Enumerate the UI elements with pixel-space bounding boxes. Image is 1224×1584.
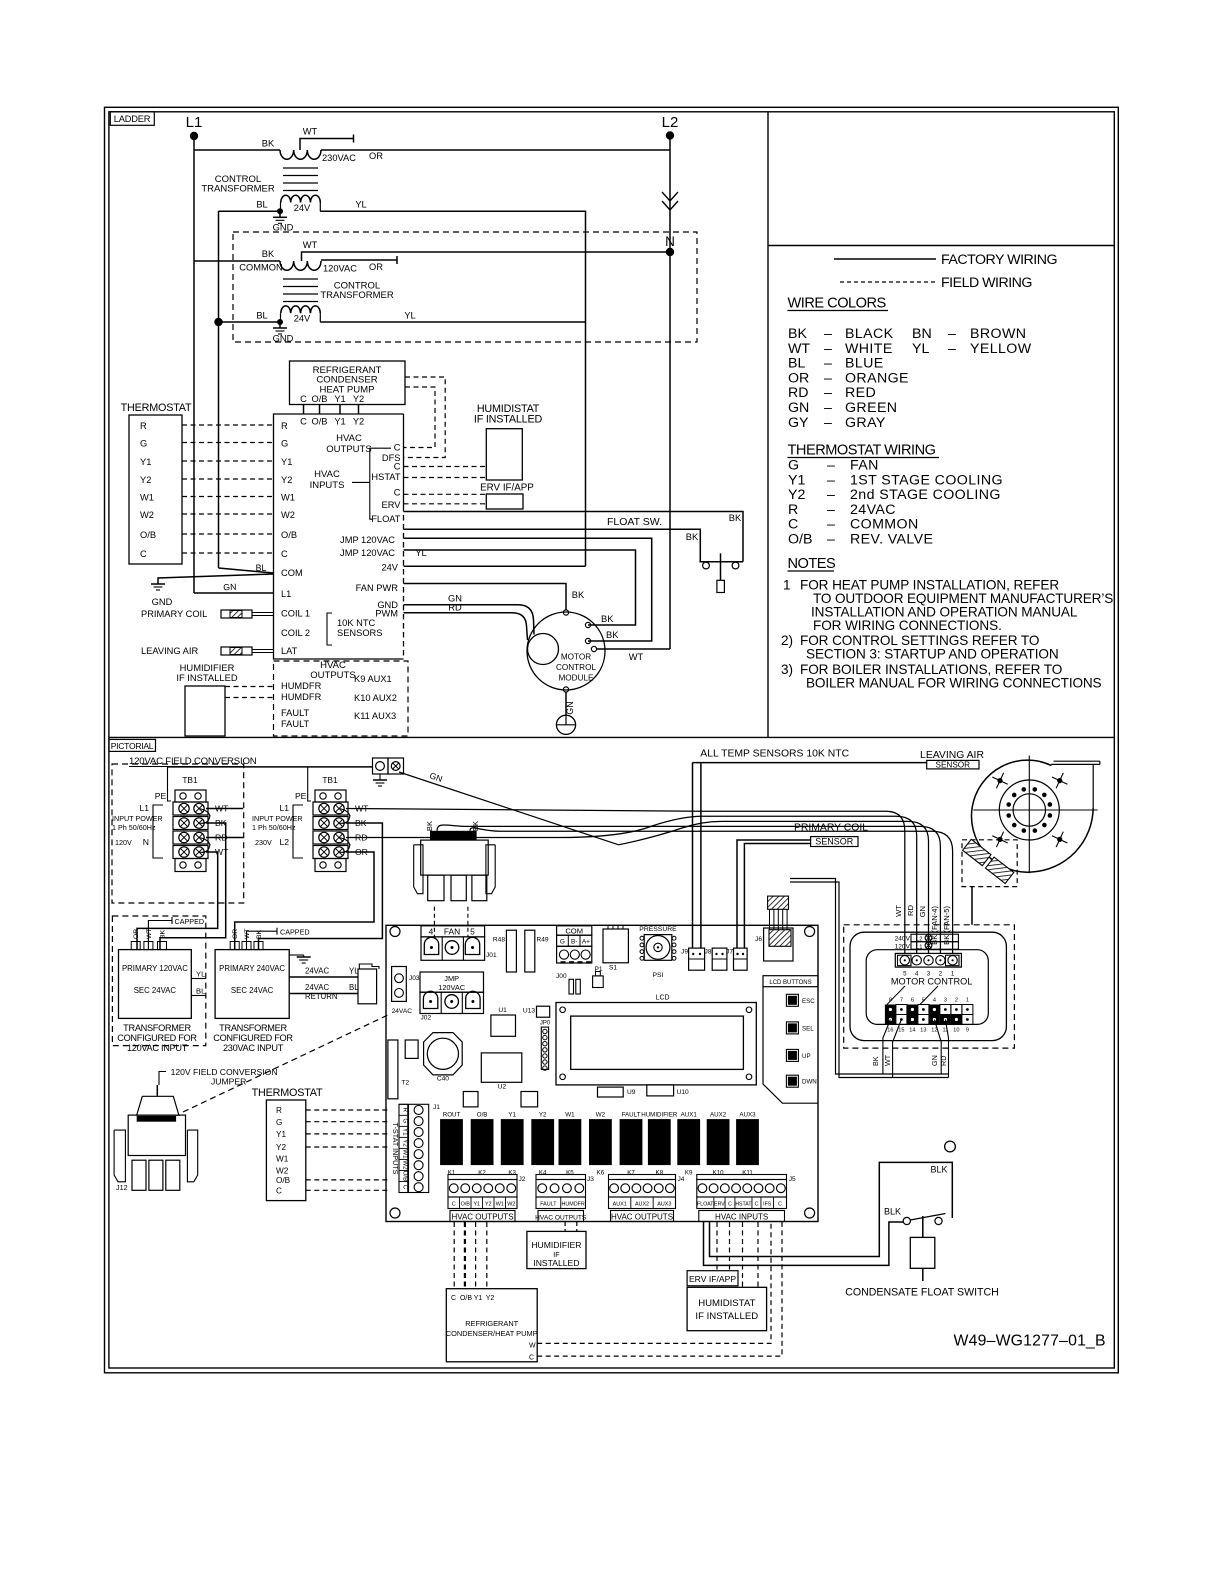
svg-text:U1: U1 <box>498 1007 507 1014</box>
ground symbol at T1 secondary <box>279 211 281 217</box>
svg-text:13: 13 <box>920 1028 926 1034</box>
svg-text:O/B: O/B <box>311 394 327 404</box>
terminal block TB1 screw rows <box>173 802 208 815</box>
svg-text:ERV IF/APP: ERV IF/APP <box>689 1274 736 1284</box>
wire 24VAC YL to plug <box>289 976 358 978</box>
svg-text:G: G <box>402 1118 409 1123</box>
svg-text:COMMON: COMMON <box>239 263 282 273</box>
svg-text:HVAC INPUTS: HVAC INPUTS <box>715 1212 768 1221</box>
caption box J2 <box>450 1211 515 1222</box>
svg-text:–: – <box>827 487 835 503</box>
svg-text:C: C <box>728 1202 732 1208</box>
svg-text:HUMIDIFIER: HUMIDIFIER <box>641 1112 678 1119</box>
svg-text:U13: U13 <box>523 1007 535 1014</box>
svg-text:–: – <box>824 370 832 386</box>
svg-text:ORANGE: ORANGE <box>845 370 909 386</box>
svg-text:WT: WT <box>883 1054 892 1066</box>
transformer T2 core lines <box>283 278 318 280</box>
svg-text:J9: J9 <box>681 949 688 956</box>
svg-text:W2: W2 <box>276 1167 289 1176</box>
dashed wires J3 to humidifier box <box>564 1222 566 1231</box>
dashed diagonal 120V conversion path <box>183 1014 390 1112</box>
svg-text:2nd STAGE COOLING: 2nd STAGE COOLING <box>850 487 1001 503</box>
svg-text:–: – <box>824 326 832 342</box>
svg-text:24VAC: 24VAC <box>305 983 329 992</box>
svg-text:WT: WT <box>303 127 318 137</box>
svg-text:W: W <box>529 1343 536 1350</box>
wire JMP 120VAC 2 to motor module BK <box>404 538 652 641</box>
svg-text:L1: L1 <box>186 114 203 131</box>
transformer T1 24V secondary coil <box>280 203 282 212</box>
terminal block TB1 top cap <box>175 790 206 802</box>
svg-text:–: – <box>948 341 956 357</box>
svg-text:K5: K5 <box>566 1170 574 1177</box>
ground lug terminal at top <box>373 758 389 774</box>
svg-text:Y2: Y2 <box>353 417 364 427</box>
svg-text:YL: YL <box>912 341 929 357</box>
svg-text:–: – <box>824 341 832 357</box>
HVAC control box (ladder) <box>274 414 404 659</box>
svg-text:14: 14 <box>909 1028 915 1034</box>
svg-text:HUMIDISTAT: HUMIDISTAT <box>698 1298 755 1309</box>
svg-text:24V: 24V <box>381 563 398 573</box>
svg-text:1: 1 <box>783 578 791 593</box>
svg-text:120VAC: 120VAC <box>323 264 357 274</box>
svg-text:–: – <box>824 356 832 372</box>
svg-text:INSTALLED: INSTALLED <box>533 1258 579 1268</box>
IC U9 <box>598 1087 624 1097</box>
svg-text:R49: R49 <box>537 937 549 944</box>
svg-text:PE: PE <box>295 791 307 801</box>
svg-text:FLOAT: FLOAT <box>371 514 401 524</box>
svg-text:1 Ph 50/60Hz: 1 Ph 50/60Hz <box>112 823 156 832</box>
svg-text:C: C <box>394 488 401 498</box>
svg-text:PRESSURE: PRESSURE <box>639 926 677 933</box>
svg-text:C40: C40 <box>437 1076 449 1083</box>
svg-text:THERMOSTAT: THERMOSTAT <box>121 402 192 414</box>
svg-text:TRANSFORMER: TRANSFORMER <box>219 1023 287 1033</box>
legend field wiring sample line <box>840 281 936 283</box>
LADDER section label <box>110 112 154 126</box>
transformer1 capped lead <box>148 921 172 950</box>
svg-text:ERV: ERV <box>714 1202 725 1208</box>
svg-text:C: C <box>300 417 307 427</box>
svg-text:WT: WT <box>244 928 251 939</box>
resistor R48 <box>506 930 516 972</box>
blower middle circle <box>999 780 1059 840</box>
dashed path refrigerant to control box DFS pin <box>404 377 446 458</box>
caption box J3 <box>538 1211 584 1222</box>
wire module ground <box>565 692 567 715</box>
svg-text:–: – <box>827 502 835 518</box>
svg-text:J00: J00 <box>556 973 567 980</box>
svg-text:THERMOSTAT: THERMOSTAT <box>252 1087 323 1099</box>
dashed C wire to ERV box <box>404 493 487 495</box>
motor control 240V/120V input block <box>911 934 958 942</box>
svg-text:FAN: FAN <box>850 458 879 474</box>
svg-text:DWN: DWN <box>802 1079 817 1086</box>
svg-text:–: – <box>827 458 835 474</box>
dashed box 120VAC alternative in ladder <box>233 232 697 342</box>
svg-text:4: 4 <box>429 927 434 937</box>
ERV IF/APP box (pictorial) <box>687 1271 738 1286</box>
capacitor C40 <box>424 1033 463 1075</box>
dashed path refrigerant to control box C pin <box>404 387 436 448</box>
wires BK WT GN RD from 16-pin to bus <box>883 1020 891 1075</box>
svg-text:L2: L2 <box>662 114 679 131</box>
svg-text:FACTORY WIRING: FACTORY WIRING <box>941 252 1057 268</box>
wire BL rail vertical to COM pin <box>218 211 220 568</box>
svg-text:REV. VALVE: REV. VALVE <box>850 532 933 548</box>
svg-text:THERMOSTAT WIRING: THERMOSTAT WIRING <box>788 443 936 459</box>
svg-text:PE: PE <box>155 791 167 801</box>
svg-text:SENSOR: SENSOR <box>815 837 854 847</box>
svg-text:O/B: O/B <box>311 417 327 427</box>
svg-text:3): 3) <box>781 662 793 677</box>
svg-text:O/B: O/B <box>477 1112 488 1119</box>
svg-text:L1: L1 <box>279 803 289 813</box>
wire BK COMMON from L1 to transformer T2 primary <box>194 260 280 262</box>
svg-text:IF INSTALLED: IF INSTALLED <box>176 672 238 683</box>
svg-text:BK: BK <box>729 513 742 523</box>
svg-text:G: G <box>281 439 288 449</box>
svg-text:JMP 120VAC: JMP 120VAC <box>340 535 395 545</box>
dashed wires J5 to ERV box <box>716 1222 718 1271</box>
svg-text:YELLOW: YELLOW <box>970 341 1032 357</box>
svg-text:BROWN: BROWN <box>970 326 1026 342</box>
svg-text:CONDENSER/HEAT PUMP: CONDENSER/HEAT PUMP <box>446 1329 538 1338</box>
two small caps above relays <box>463 1092 478 1107</box>
svg-text:NOTES: NOTES <box>788 556 837 572</box>
svg-text:HSTAT: HSTAT <box>735 1202 752 1208</box>
wire TB1-120V BK row2 to transformer1 BK pin <box>160 823 226 950</box>
svg-text:O/B: O/B <box>276 1176 291 1185</box>
svg-text:T2: T2 <box>402 1080 410 1087</box>
wire FAN PWR to motor module <box>404 584 567 611</box>
resistor R49 <box>525 930 535 972</box>
svg-text:120V FIELD CONVERSION: 120V FIELD CONVERSION <box>171 1067 278 1077</box>
svg-text:W2: W2 <box>596 1112 606 1119</box>
svg-text:Y2: Y2 <box>539 1112 547 1119</box>
24VAC plug connector <box>358 969 377 1004</box>
capacitors near J00 <box>569 979 574 994</box>
svg-text:W1: W1 <box>276 1155 289 1164</box>
svg-text:Y1: Y1 <box>473 1202 480 1208</box>
svg-text:O/B: O/B <box>281 530 297 540</box>
svg-text:G: G <box>276 1118 282 1127</box>
wire BK from L1 to transformer T1 primary <box>194 149 280 151</box>
svg-text:120V: 120V <box>115 838 132 847</box>
svg-text:GND: GND <box>152 597 173 607</box>
svg-text:J03: J03 <box>409 975 420 982</box>
svg-text:CONDENSATE FLOAT SWITCH: CONDENSATE FLOAT SWITCH <box>845 1287 999 1299</box>
svg-text:Y1: Y1 <box>334 417 345 427</box>
svg-text:C: C <box>452 1202 456 1208</box>
fan plug connector (pictorial) <box>430 831 477 840</box>
svg-text:U2: U2 <box>498 1084 507 1091</box>
svg-text:SEL: SEL <box>802 1025 814 1032</box>
svg-text:GND: GND <box>273 334 294 344</box>
svg-text:J12: J12 <box>116 1183 128 1192</box>
primary coil SENSOR box <box>811 837 858 847</box>
svg-text:GN: GN <box>788 400 809 416</box>
dashed HSTAT wire to humidistat <box>404 477 487 479</box>
leaving air probe dashed box <box>962 840 1017 887</box>
LCD BUTTONS panel <box>763 987 818 1103</box>
svg-text:GN: GN <box>930 1055 939 1066</box>
thermostat box (ladder) <box>129 415 182 564</box>
svg-text:Y2: Y2 <box>353 394 364 404</box>
wire OR from T1 primary to L2 rail <box>321 149 670 151</box>
svg-text:CONFIGURED FOR: CONFIGURED FOR <box>213 1033 293 1043</box>
ground symbol right of transformer2 <box>289 954 304 956</box>
wire JMP 120VAC 1 to float switch <box>404 529 701 561</box>
svg-text:C: C <box>755 1202 759 1208</box>
svg-text:HUMDFR: HUMDFR <box>281 681 322 691</box>
motor control 5-pin connector <box>895 953 961 967</box>
legend factory wiring sample line <box>834 258 936 260</box>
svg-text:C: C <box>394 443 401 453</box>
svg-text:Y2: Y2 <box>486 1295 495 1302</box>
svg-text:–: – <box>824 415 832 431</box>
humidifier box (ladder) <box>185 686 225 736</box>
svg-text:W2: W2 <box>140 510 154 520</box>
IC U2 <box>481 1053 522 1082</box>
svg-text:OR: OR <box>369 262 383 272</box>
svg-text:230VAC INPUT: 230VAC INPUT <box>223 1043 284 1053</box>
node L1 junction dot <box>190 132 198 140</box>
svg-text:JMP: JMP <box>444 974 459 983</box>
svg-text:15: 15 <box>898 1028 904 1034</box>
wires J7 to primary coil sensor <box>737 840 811 948</box>
svg-text:K7: K7 <box>627 1170 635 1177</box>
svg-text:Y1: Y1 <box>508 1112 516 1119</box>
motor control 16-pin connector <box>885 1005 896 1015</box>
connector J02 JMP 120VAC <box>420 972 484 992</box>
svg-text:–: – <box>827 532 835 548</box>
svg-text:BK: BK <box>601 614 614 624</box>
svg-text:LCD BUTTONS: LCD BUTTONS <box>769 980 811 986</box>
wire YL from T2 secondary joining YL rail <box>320 321 585 323</box>
TB1 input bracket <box>153 805 163 858</box>
svg-text:WHITE: WHITE <box>845 341 893 357</box>
switch S1 <box>608 925 613 929</box>
svg-text:REFRIGERANT: REFRIGERANT <box>465 1319 518 1328</box>
svg-text:K8: K8 <box>656 1170 664 1177</box>
svg-text:W1: W1 <box>565 1112 575 1119</box>
svg-text:J7: J7 <box>726 949 733 956</box>
svg-text:240V: 240V <box>895 936 911 943</box>
svg-text:UP: UP <box>802 1053 811 1060</box>
wire WT tap of T1 with capped end <box>300 139 354 151</box>
svg-text:R: R <box>276 1106 282 1115</box>
svg-text:C: C <box>300 394 307 404</box>
svg-text:PWM: PWM <box>375 609 398 619</box>
svg-text:C: C <box>788 517 798 533</box>
svg-text:BK: BK <box>425 821 434 831</box>
wire bundle five conductors <box>346 809 905 954</box>
svg-text:CONFIGURED FOR: CONFIGURED FOR <box>117 1033 197 1043</box>
caption box J5 <box>699 1211 785 1222</box>
motor control dashed box <box>844 925 1015 1048</box>
terminal strip J4 <box>609 1175 676 1180</box>
motor control outer rounded body <box>850 932 1006 1040</box>
svg-text:YL: YL <box>404 311 415 321</box>
transformer T2 120VAC primary coil <box>280 261 321 270</box>
transformer T1 230VAC primary coil <box>280 150 321 159</box>
svg-text:2): 2) <box>781 633 793 648</box>
svg-text:O/B: O/B <box>402 1171 409 1182</box>
svg-text:FAN: FAN <box>444 927 460 937</box>
svg-text:J8: J8 <box>705 949 712 956</box>
svg-text:ERV IF/APP: ERV IF/APP <box>480 483 534 494</box>
svg-text:W2: W2 <box>507 1202 515 1208</box>
svg-text:AUX2: AUX2 <box>710 1112 727 1119</box>
svg-text:LAT: LAT <box>281 646 298 656</box>
wire L1 to control box L1 pin <box>194 592 274 594</box>
svg-text:FLOAT: FLOAT <box>697 1202 714 1208</box>
motor control leader lines <box>887 986 905 1005</box>
svg-text:G: G <box>788 458 799 474</box>
svg-text:O/B: O/B <box>788 532 812 548</box>
terminal block TB1 screw rows <box>313 802 348 815</box>
PCB mounting holes <box>390 927 400 937</box>
svg-text:–: – <box>948 326 956 342</box>
svg-text:Y2: Y2 <box>402 1139 409 1147</box>
transformer T2 24V secondary coil <box>280 313 282 322</box>
svg-text:BK: BK <box>606 630 619 640</box>
svg-text:PRIMARY 120VAC: PRIMARY 120VAC <box>122 964 188 973</box>
svg-text:ROUT: ROUT <box>443 1112 461 1119</box>
svg-text:C: C <box>778 1202 782 1208</box>
condensate float ball <box>945 1141 956 1152</box>
svg-text:Y2: Y2 <box>276 1143 286 1152</box>
blower diagonal tick marks <box>992 777 1007 784</box>
svg-text:LCD: LCD <box>656 995 670 1002</box>
svg-text:BK: BK <box>160 929 167 939</box>
svg-text:BL: BL <box>256 311 267 321</box>
svg-text:PRIMARY COIL: PRIMARY COIL <box>141 609 207 619</box>
svg-text:R48: R48 <box>493 937 505 944</box>
transformer T1 core lines <box>283 167 318 169</box>
svg-text:L2: L2 <box>916 937 922 943</box>
svg-text:120VAC: 120VAC <box>438 983 466 992</box>
L2 rail double chevron <box>662 192 678 201</box>
svg-text:O/B: O/B <box>140 530 156 540</box>
svg-text:J1: J1 <box>433 1104 440 1111</box>
wire 24VAC RETURN BL to plug <box>289 993 358 995</box>
svg-text:GN: GN <box>565 701 575 714</box>
svg-text:HSTAT: HSTAT <box>371 472 400 482</box>
svg-text:HUMIDIFIER: HUMIDIFIER <box>531 1240 581 1250</box>
svg-text:K11: K11 <box>742 1170 753 1177</box>
svg-text:CAPPED: CAPPED <box>175 917 205 926</box>
svg-text:BLACK: BLACK <box>845 326 894 342</box>
terminal strip J3 <box>536 1175 586 1180</box>
svg-text:BL: BL <box>256 200 267 210</box>
svg-text:L1: L1 <box>916 944 922 950</box>
svg-text:K2: K2 <box>478 1170 486 1177</box>
relays K1-K11 black blocks <box>440 1119 463 1165</box>
svg-text:S1: S1 <box>609 965 617 972</box>
svg-text:HEAT PUMP: HEAT PUMP <box>319 384 374 395</box>
svg-text:C: C <box>281 549 288 559</box>
svg-text:Y1: Y1 <box>402 1128 409 1136</box>
svg-text:TRANSFORMER: TRANSFORMER <box>201 184 275 195</box>
svg-text:AUX3: AUX3 <box>739 1112 756 1119</box>
dashed wires fan plug to J01 <box>433 907 435 937</box>
dashed wires J2 to refrigerant condenser box <box>453 1222 455 1289</box>
svg-text:BK: BK <box>262 139 275 149</box>
PE bus wire <box>168 766 373 768</box>
svg-text:FOR WIRING CONNECTIONS.: FOR WIRING CONNECTIONS. <box>813 618 1002 633</box>
svg-text:JMP 120VAC: JMP 120VAC <box>340 548 395 558</box>
svg-text:BL: BL <box>256 563 267 573</box>
terminal block TB1 top cap <box>315 790 346 802</box>
svg-text:FAULT: FAULT <box>281 719 310 729</box>
wire 24V from YL rail <box>404 565 586 567</box>
IC U1 <box>491 1015 516 1036</box>
blower axes <box>973 809 1097 811</box>
small component left <box>405 1040 418 1058</box>
node N junction dot <box>666 248 674 256</box>
svg-text:SECTION 3: STARTUP AND OPERATI: SECTION 3: STARTUP AND OPERATION <box>806 647 1059 662</box>
wire WT tap of T2 to node N <box>302 252 671 261</box>
svg-text:W1: W1 <box>281 493 295 503</box>
refrigerant condenser heat pump box (ladder) <box>290 361 406 405</box>
svg-text:G: G <box>560 939 565 946</box>
svg-text:PRIMARY COIL: PRIMARY COIL <box>794 823 868 834</box>
svg-text:INPUT POWER: INPUT POWER <box>112 814 163 823</box>
svg-text:OR: OR <box>369 151 383 161</box>
svg-text:SEC 24VAC: SEC 24VAC <box>134 986 177 995</box>
svg-text:FIELD WIRING: FIELD WIRING <box>941 275 1032 291</box>
control box lower dashed HVAC OUTPUTS section <box>274 661 409 736</box>
svg-text:PSI: PSI <box>653 972 664 979</box>
terminal block TB1 bottom cap <box>175 859 206 872</box>
svg-text:WT: WT <box>894 905 903 917</box>
outer border frame <box>105 107 1119 1373</box>
blower outlet duct <box>1054 760 1100 762</box>
svg-text:WT: WT <box>303 240 318 250</box>
svg-text:W1: W1 <box>496 1202 504 1208</box>
svg-text:–: – <box>827 472 835 488</box>
svg-text:CONTROL: CONTROL <box>556 663 596 672</box>
svg-text:10: 10 <box>953 1028 959 1034</box>
condensate float switch contacts <box>903 1217 910 1224</box>
svg-text:IF INSTALLED: IF INSTALLED <box>695 1311 758 1322</box>
legend top divider <box>768 245 1114 247</box>
dashed ERV wire to ERV box <box>404 503 487 505</box>
legend column divider <box>767 112 769 738</box>
svg-text:MOTOR: MOTOR <box>561 653 591 662</box>
svg-text:COM: COM <box>281 568 303 578</box>
wire BL from T1 secondary <box>219 210 281 212</box>
svg-text:W49–WG1277–01_B: W49–WG1277–01_B <box>954 1333 1106 1350</box>
wire L2 rail vertical <box>669 136 671 650</box>
svg-text:OR: OR <box>133 929 140 939</box>
svg-text:120VAC INPUT: 120VAC INPUT <box>127 1043 188 1053</box>
svg-text:AUX1: AUX1 <box>613 1202 627 1208</box>
svg-text:B-: B- <box>571 939 577 946</box>
svg-text:GN: GN <box>918 906 927 917</box>
transformer2 body PRIMARY 240VAC <box>215 950 289 1019</box>
svg-text:HVAC: HVAC <box>314 469 340 480</box>
wire OR stub of T2 with capped end <box>321 259 397 261</box>
svg-text:INPUTS: INPUTS <box>310 480 345 491</box>
svg-text:YL: YL <box>355 200 366 210</box>
thermostat jumper plug J12 <box>156 1085 158 1096</box>
